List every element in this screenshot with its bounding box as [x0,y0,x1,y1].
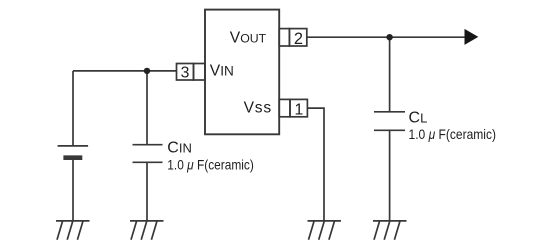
pin 2 stub [279,29,289,46]
ground G2 (Cin) [130,221,164,240]
wire output net: pin 2 to arrow [307,36,465,38]
wire input net: battery to pin 3 [73,70,177,72]
capacitor CIN plates [133,145,163,163]
svg-text:1.0 μ F(ceramic): 1.0 μ F(ceramic) [167,156,254,172]
pin 1 stub [279,99,290,116]
wire Cin top lead [146,71,148,145]
capacitor CL plates [374,112,405,131]
ground G4 (CL) [373,221,407,240]
ground G1 (battery) [56,221,90,240]
wire CL bottom lead [389,130,391,221]
svg-text:VOUT: VOUT [230,30,267,47]
svg-text:VIN: VIN [210,63,234,80]
battery BT1 long plate [58,145,89,147]
ground G3 (Vss) [308,221,342,240]
svg-text:1.0 μ F(ceramic): 1.0 μ F(ceramic) [409,126,497,142]
pin 1 box [290,99,307,116]
wire battery bottom lead [72,158,74,221]
svg-text:2: 2 [294,30,303,48]
wire battery top lead [72,71,74,146]
wire Cin bottom lead [146,162,148,221]
battery BT1 short thick plate [63,155,82,160]
svg-text:CL: CL [409,109,428,126]
wire CL top lead [389,37,391,112]
svg-text:1: 1 [295,102,304,119]
pin 3 stub [194,64,206,81]
svg-text:3: 3 [181,65,190,82]
output arrow [465,29,479,45]
junction node B (Vout net) [386,34,392,40]
regulator IC U1 body [205,10,279,135]
pin 2 box [289,29,306,46]
junction node A (Vin net) [144,68,150,74]
wire pin 1 to ground [307,108,324,221]
svg-text:Vss: Vss [244,100,272,117]
svg-text:CIN: CIN [167,139,192,156]
pin 3 box [177,64,194,81]
